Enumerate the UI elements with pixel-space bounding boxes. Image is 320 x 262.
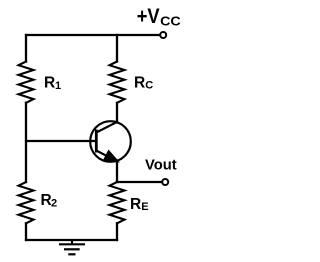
transistor Q1 emitter stroke — [96, 151, 118, 162]
wire bottom rail — [26, 239, 117, 241]
label RE — [130, 196, 149, 213]
wire base — [26, 140, 95, 142]
svg-text:R: R — [44, 74, 55, 91]
label RC — [134, 74, 153, 91]
svg-text:C: C — [145, 79, 153, 91]
resistor R2 — [19, 182, 34, 223]
wire Vout — [117, 181, 162, 183]
svg-text:E: E — [141, 201, 148, 213]
transistor Q1 base bar — [95, 130, 98, 153]
wire collector branch top — [116, 35, 118, 62]
label +VCC — [137, 4, 182, 28]
svg-text:1: 1 — [55, 80, 61, 92]
terminal Vout — [162, 179, 168, 185]
wire emitter lead — [116, 161, 118, 183]
wire left rail lower — [25, 223, 27, 240]
transistor Q1 collector stroke — [96, 122, 117, 133]
label R2 — [41, 192, 58, 210]
wire collector lead — [116, 103, 118, 123]
resistor RE — [110, 182, 125, 223]
wire top rail — [26, 34, 160, 36]
resistor RC — [110, 62, 125, 103]
svg-text:Vout: Vout — [145, 158, 177, 174]
label R1 — [44, 74, 61, 92]
transistor Q1 (NPN) — [90, 121, 131, 162]
svg-text:R: R — [134, 74, 145, 91]
svg-text:2: 2 — [51, 198, 57, 210]
svg-text:R: R — [130, 196, 141, 213]
ground — [59, 240, 85, 254]
resistor R1 — [19, 62, 34, 103]
transistor Q1 emitter arrow — [104, 151, 119, 162]
terminal +VCC — [160, 32, 166, 38]
wire left rail middle — [25, 103, 27, 182]
svg-text:CC: CC — [160, 13, 181, 28]
wire emitter branch bottom — [116, 223, 118, 240]
wire left rail upper — [25, 35, 27, 62]
transistor Q1 body circle — [90, 121, 131, 162]
svg-text:+V: +V — [137, 4, 160, 28]
